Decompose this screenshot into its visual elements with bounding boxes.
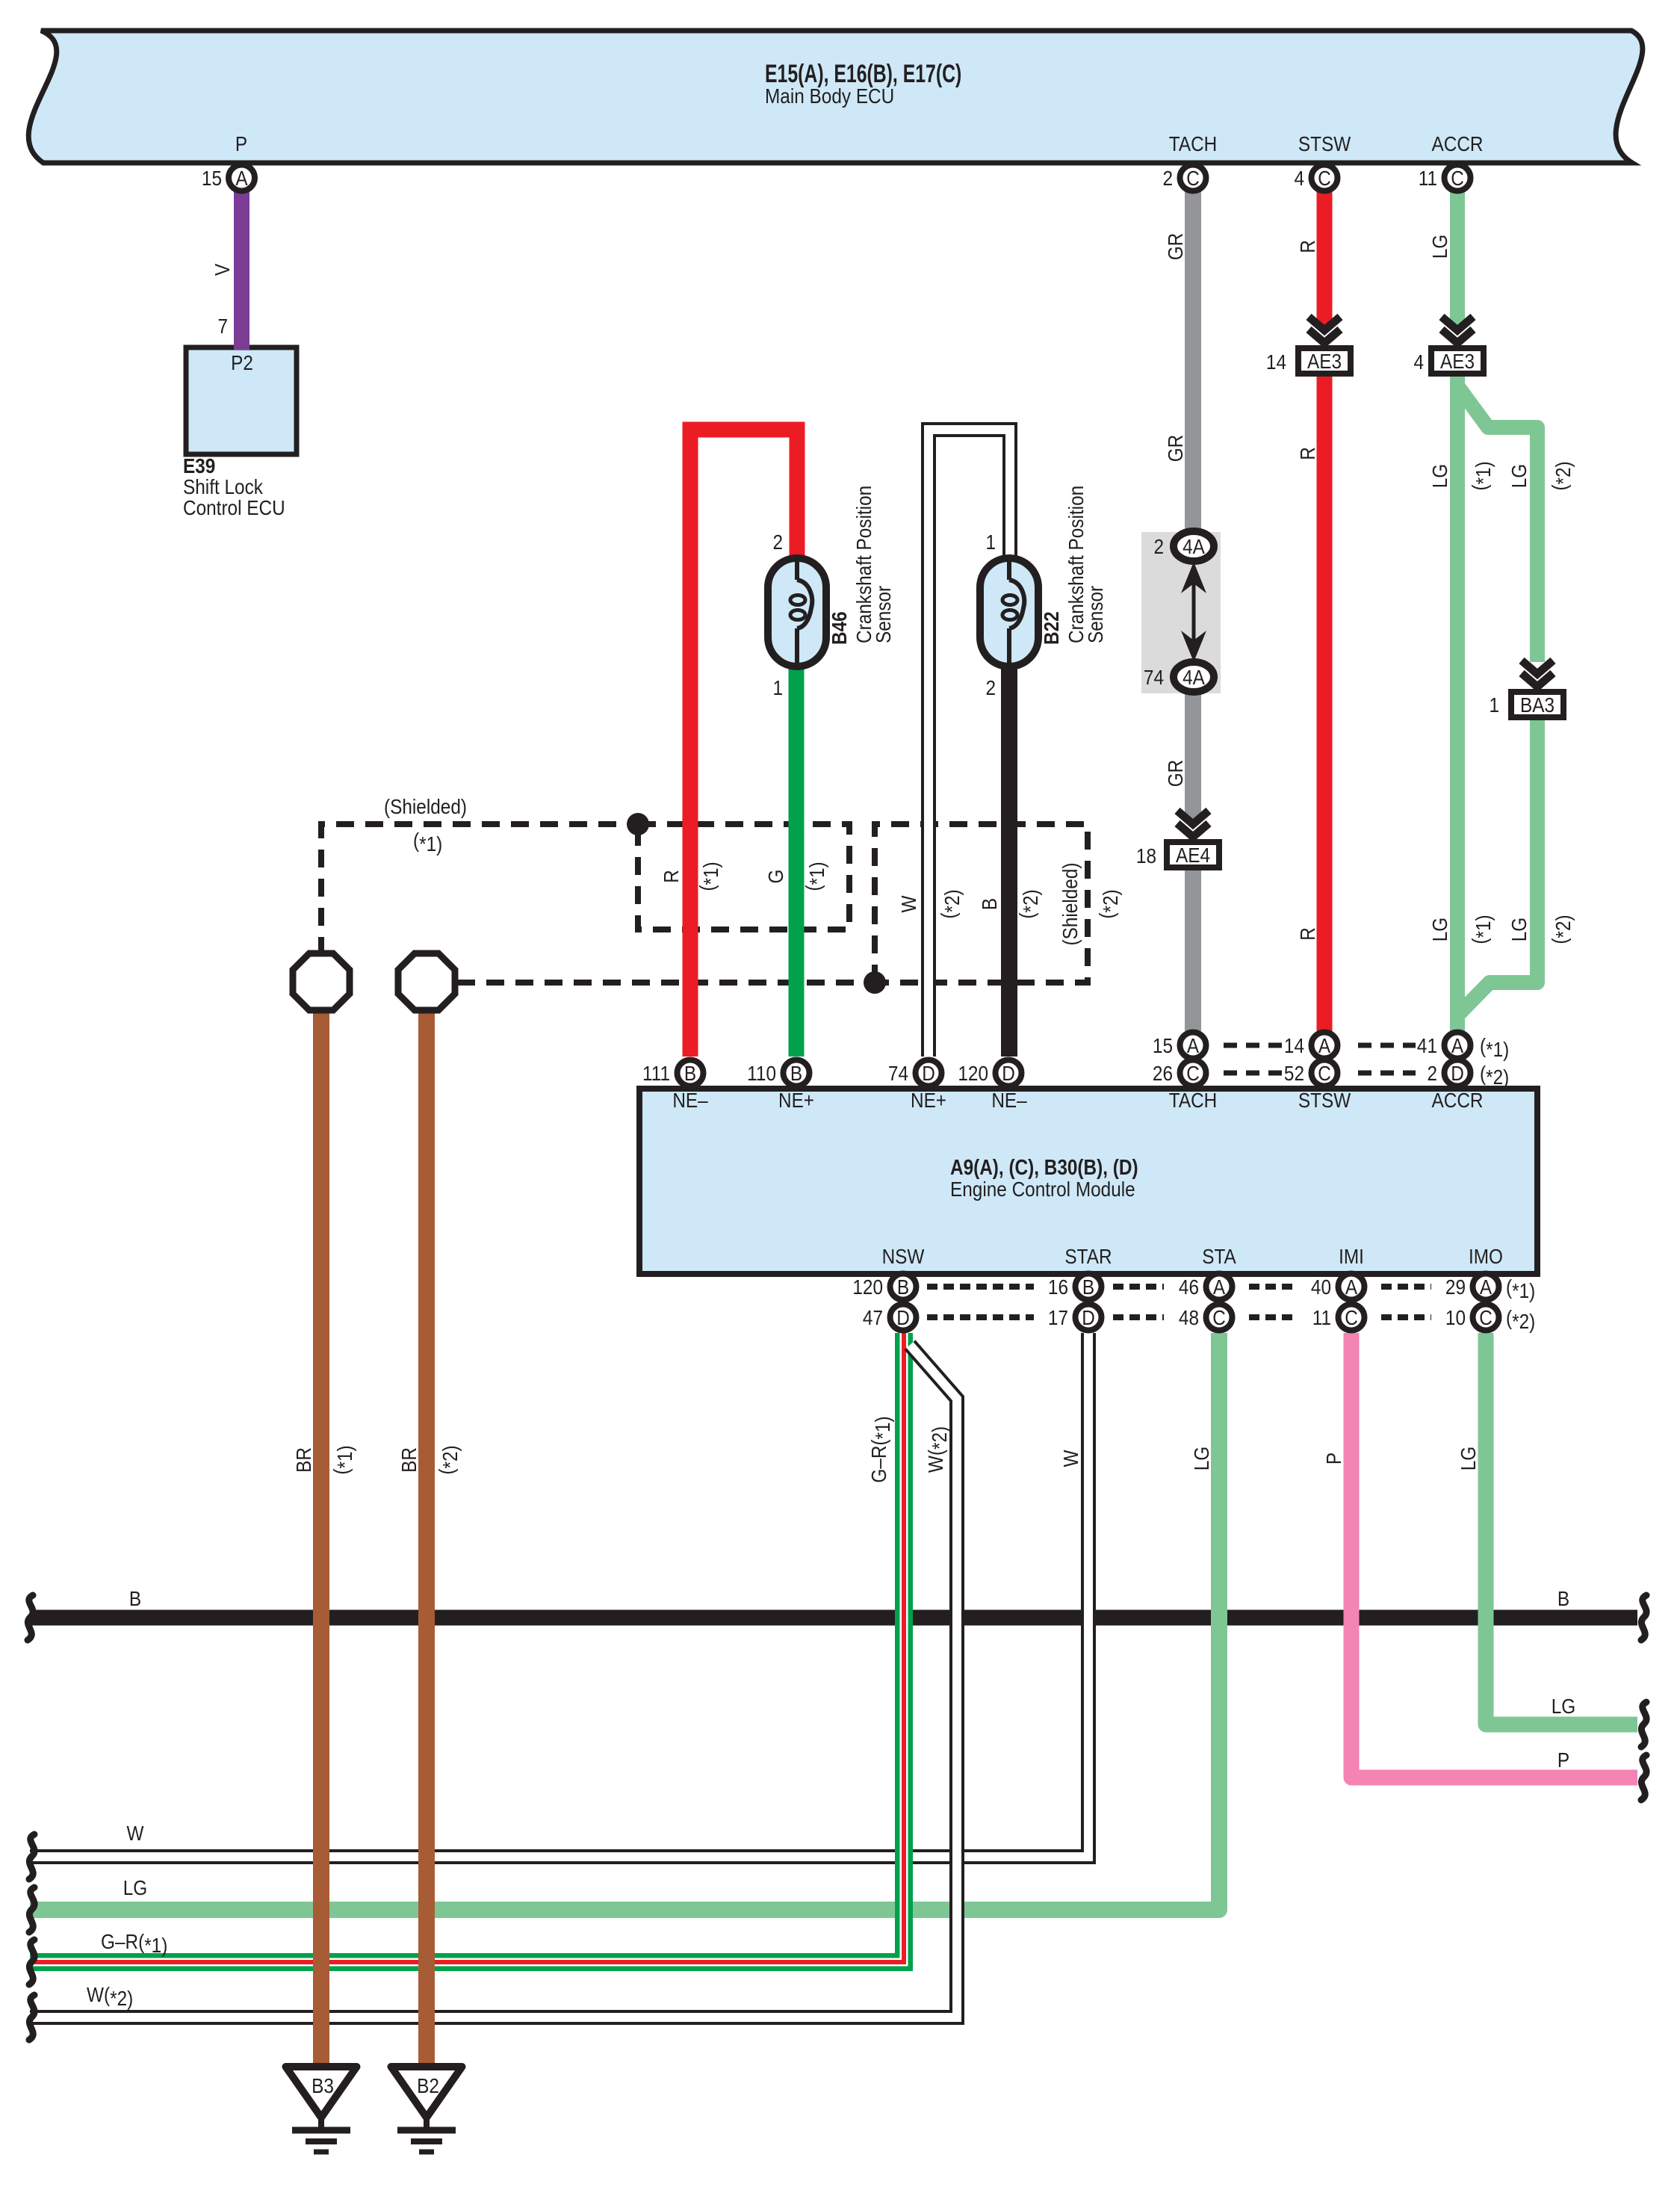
svg-text:P2: P2 — [231, 350, 253, 374]
svg-text:(Shielded): (Shielded) — [1058, 862, 1082, 945]
svg-text:11: 11 — [1419, 166, 1437, 190]
svg-text:AE3: AE3 — [1440, 349, 1475, 373]
svg-text:AE3: AE3 — [1307, 349, 1342, 373]
svg-text:LG: LG — [1456, 1447, 1480, 1470]
svg-text:W(*2): W(*2) — [87, 1982, 133, 2010]
svg-text:Sensor: Sensor — [871, 586, 895, 643]
svg-text:(*2): (*2) — [1480, 1061, 1509, 1089]
svg-text:2: 2 — [985, 675, 996, 699]
svg-text:(*1): (*1) — [329, 1445, 356, 1474]
svg-text:(*2): (*2) — [1547, 461, 1575, 490]
svg-text:LG: LG — [1428, 235, 1451, 259]
svg-text:4: 4 — [1294, 166, 1304, 190]
svg-text:NSW: NSW — [882, 1244, 925, 1268]
svg-text:IMI: IMI — [1339, 1244, 1364, 1268]
svg-text:G–R(*1): G–R(*1) — [101, 1929, 167, 1957]
svg-text:2: 2 — [1153, 534, 1164, 558]
svg-text:(*1): (*1) — [1467, 915, 1495, 944]
svg-text:B22: B22 — [1039, 611, 1063, 645]
svg-text:74: 74 — [1144, 665, 1164, 689]
svg-text:ACCR: ACCR — [1431, 1088, 1483, 1112]
svg-text:GR: GR — [1163, 233, 1187, 261]
svg-text:74: 74 — [888, 1061, 908, 1085]
svg-text:NE+: NE+ — [778, 1088, 814, 1112]
svg-text:B: B — [129, 1586, 141, 1610]
svg-text:R: R — [659, 870, 683, 883]
svg-text:26: 26 — [1153, 1061, 1173, 1085]
svg-text:W: W — [1058, 1450, 1082, 1467]
svg-text:LG: LG — [123, 1875, 147, 1899]
svg-text:(*1): (*1) — [1467, 461, 1495, 490]
svg-text:LG: LG — [1189, 1447, 1213, 1470]
svg-text:C: C — [1479, 1305, 1493, 1329]
svg-text:TACH: TACH — [1169, 132, 1217, 155]
svg-text:(*1): (*1) — [413, 828, 442, 856]
svg-text:(*2): (*2) — [1014, 889, 1042, 918]
svg-text:W(*2): W(*2) — [923, 1426, 951, 1473]
svg-text:4: 4 — [1413, 350, 1424, 374]
svg-text:STA: STA — [1202, 1244, 1236, 1268]
svg-text:(Shielded): (Shielded) — [384, 794, 467, 818]
svg-text:C: C — [1451, 166, 1464, 190]
svg-text:41: 41 — [1417, 1033, 1437, 1057]
svg-text:A: A — [1318, 1033, 1331, 1057]
svg-text:(*2): (*2) — [1094, 889, 1122, 918]
svg-text:B: B — [1557, 1586, 1569, 1610]
svg-text:14: 14 — [1266, 350, 1286, 374]
svg-text:STAR: STAR — [1064, 1244, 1112, 1268]
svg-text:(*2): (*2) — [1547, 915, 1575, 944]
svg-text:18: 18 — [1136, 844, 1156, 867]
svg-text:B: B — [790, 1061, 802, 1085]
svg-text:(*2): (*2) — [936, 889, 964, 918]
svg-text:C: C — [1186, 1061, 1200, 1085]
svg-text:D: D — [1002, 1061, 1015, 1085]
svg-text:C: C — [1318, 166, 1331, 190]
svg-text:GR: GR — [1163, 435, 1187, 463]
svg-text:R: R — [1295, 927, 1319, 941]
svg-text:(*1): (*1) — [1506, 1275, 1535, 1302]
svg-text:A: A — [1345, 1275, 1358, 1299]
svg-text:111: 111 — [642, 1061, 670, 1085]
svg-text:P: P — [1321, 1453, 1345, 1464]
svg-text:W: W — [896, 895, 920, 912]
svg-text:46: 46 — [1179, 1275, 1199, 1299]
svg-text:LG: LG — [1428, 464, 1451, 488]
svg-text:NE+: NE+ — [911, 1088, 946, 1112]
svg-text:B3: B3 — [311, 2073, 334, 2097]
svg-text:D: D — [1451, 1061, 1464, 1085]
svg-text:B: B — [684, 1061, 696, 1085]
svg-text:BR: BR — [397, 1447, 421, 1473]
svg-text:LG: LG — [1507, 918, 1531, 941]
svg-text:GR: GR — [1163, 760, 1187, 788]
svg-text:29: 29 — [1445, 1275, 1466, 1299]
svg-text:Engine Control Module: Engine Control Module — [950, 1177, 1135, 1201]
svg-text:A: A — [1480, 1275, 1493, 1299]
svg-text:LG: LG — [1428, 918, 1451, 941]
svg-text:LG: LG — [1552, 1694, 1575, 1718]
svg-text:LG: LG — [1507, 464, 1531, 488]
svg-text:48: 48 — [1179, 1305, 1199, 1329]
svg-text:10: 10 — [1445, 1305, 1466, 1329]
svg-text:17: 17 — [1048, 1305, 1068, 1329]
svg-text:B: B — [1082, 1275, 1094, 1299]
svg-text:TACH: TACH — [1169, 1088, 1217, 1112]
svg-text:15: 15 — [202, 166, 222, 190]
svg-text:B: B — [977, 898, 1001, 910]
svg-text:(*1): (*1) — [1480, 1033, 1509, 1061]
svg-text:Main Body ECU: Main Body ECU — [765, 84, 894, 108]
svg-text:Control ECU: Control ECU — [183, 495, 285, 519]
svg-text:2: 2 — [1427, 1061, 1437, 1085]
svg-text:110: 110 — [747, 1061, 776, 1085]
svg-text:STSW: STSW — [1298, 132, 1351, 155]
svg-text:ACCR: ACCR — [1431, 132, 1483, 155]
svg-text:BA3: BA3 — [1520, 693, 1555, 717]
svg-text:11: 11 — [1312, 1305, 1331, 1329]
svg-text:D: D — [922, 1061, 935, 1085]
svg-text:G: G — [763, 870, 787, 884]
svg-text:V: V — [210, 263, 234, 276]
svg-text:2: 2 — [1162, 166, 1173, 190]
svg-text:1: 1 — [985, 530, 996, 554]
svg-text:(*2): (*2) — [1506, 1305, 1535, 1333]
svg-text:C: C — [1345, 1305, 1358, 1329]
svg-text:AE4: AE4 — [1176, 843, 1210, 867]
svg-text:A9(A), (C), B30(B), (D): A9(A), (C), B30(B), (D) — [950, 1155, 1138, 1179]
svg-text:D: D — [1082, 1305, 1095, 1329]
svg-text:(*2): (*2) — [434, 1445, 462, 1474]
svg-text:NE–: NE– — [991, 1088, 1027, 1112]
svg-text:A: A — [1451, 1033, 1464, 1057]
svg-text:R: R — [1295, 240, 1319, 253]
svg-text:47: 47 — [863, 1305, 883, 1329]
svg-text:A: A — [1213, 1275, 1226, 1299]
svg-text:7: 7 — [217, 314, 228, 338]
svg-text:(*1): (*1) — [801, 862, 828, 891]
svg-text:15: 15 — [1153, 1033, 1173, 1057]
svg-text:4A: 4A — [1182, 534, 1205, 558]
svg-text:B: B — [897, 1275, 909, 1299]
svg-text:D: D — [896, 1305, 910, 1329]
svg-text:STSW: STSW — [1298, 1088, 1351, 1112]
svg-text:2: 2 — [772, 530, 783, 554]
svg-text:40: 40 — [1311, 1275, 1331, 1299]
svg-text:120: 120 — [852, 1275, 883, 1299]
svg-text:G–R(*1): G–R(*1) — [867, 1416, 894, 1482]
svg-text:C: C — [1212, 1305, 1226, 1329]
svg-text:4A: 4A — [1182, 665, 1205, 689]
svg-text:IMO: IMO — [1469, 1244, 1503, 1268]
svg-text:16: 16 — [1048, 1275, 1068, 1299]
svg-text:C: C — [1186, 166, 1200, 190]
svg-text:P: P — [1557, 1748, 1569, 1772]
svg-text:W: W — [127, 1821, 144, 1845]
svg-text:B46: B46 — [827, 611, 851, 645]
svg-text:NE–: NE– — [672, 1088, 708, 1112]
svg-text:BR: BR — [291, 1447, 315, 1473]
svg-text:B2: B2 — [417, 2073, 439, 2097]
svg-text:120: 120 — [958, 1061, 988, 1085]
svg-text:1: 1 — [772, 675, 783, 699]
svg-text:Sensor: Sensor — [1083, 586, 1107, 643]
svg-text:14: 14 — [1284, 1033, 1304, 1057]
svg-text:(*1): (*1) — [695, 862, 722, 891]
svg-text:R: R — [1295, 447, 1319, 460]
svg-text:P: P — [235, 132, 247, 155]
svg-text:1: 1 — [1489, 693, 1499, 717]
svg-text:A: A — [1187, 1033, 1200, 1057]
svg-text:A: A — [235, 166, 248, 190]
svg-text:52: 52 — [1284, 1061, 1304, 1085]
svg-text:C: C — [1318, 1061, 1331, 1085]
